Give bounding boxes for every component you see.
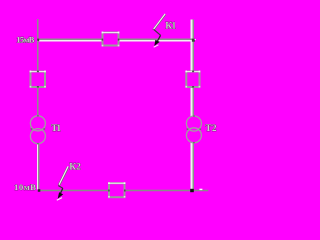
label T1 [51, 124, 61, 134]
transformer T2 (two overlapping circles on right wire) [186, 115, 201, 143]
wire: bottom-right stub highlight [199, 189, 202, 190]
resistor box R right (on right wire) [185, 71, 200, 88]
wire: bottom horizontal (y=190, x 38-208) [38, 190, 208, 192]
label source value 15mV (net of left source) [16, 34, 34, 44]
node: junction bottom-left [38, 189, 41, 192]
node: junction top-right [192, 39, 195, 42]
svg-text:10мВ: 10мВ [14, 182, 36, 192]
resistor box R left (on left wire) [30, 71, 46, 88]
transformer T1 (two overlapping circles on left wire) [30, 115, 45, 144]
svg-text:К2: К2 [69, 163, 81, 173]
label K2 [69, 163, 81, 173]
svg-text:Т2: Т2 [205, 124, 217, 134]
svg-text:К1: К1 [165, 21, 176, 31]
node: junction top-left [37, 39, 39, 42]
svg-text:Т1: Т1 [51, 124, 61, 134]
label T2 [205, 124, 217, 134]
label source value 10mV (net of bottom source) [14, 182, 36, 192]
switch K2 (zigzag arrow piercing bottom wire) [57, 167, 69, 201]
label K1 [165, 21, 176, 31]
wire: right vertical (x~193, y 19-190) [190, 20, 194, 190]
resistor box R top (on top wire) [102, 32, 120, 47]
node: junction bottom-right [190, 189, 194, 192]
wire: left vertical (x~37, y 19-190) [37, 19, 40, 190]
wire: top horizontal (y=40, x 37-194) [37, 38, 194, 41]
svg-text:15мВ: 15мВ [16, 34, 34, 44]
switch K1 (zigzag arrow piercing top wire) [153, 14, 166, 47]
resistor box R bottom (on bottom wire) [108, 182, 126, 197]
